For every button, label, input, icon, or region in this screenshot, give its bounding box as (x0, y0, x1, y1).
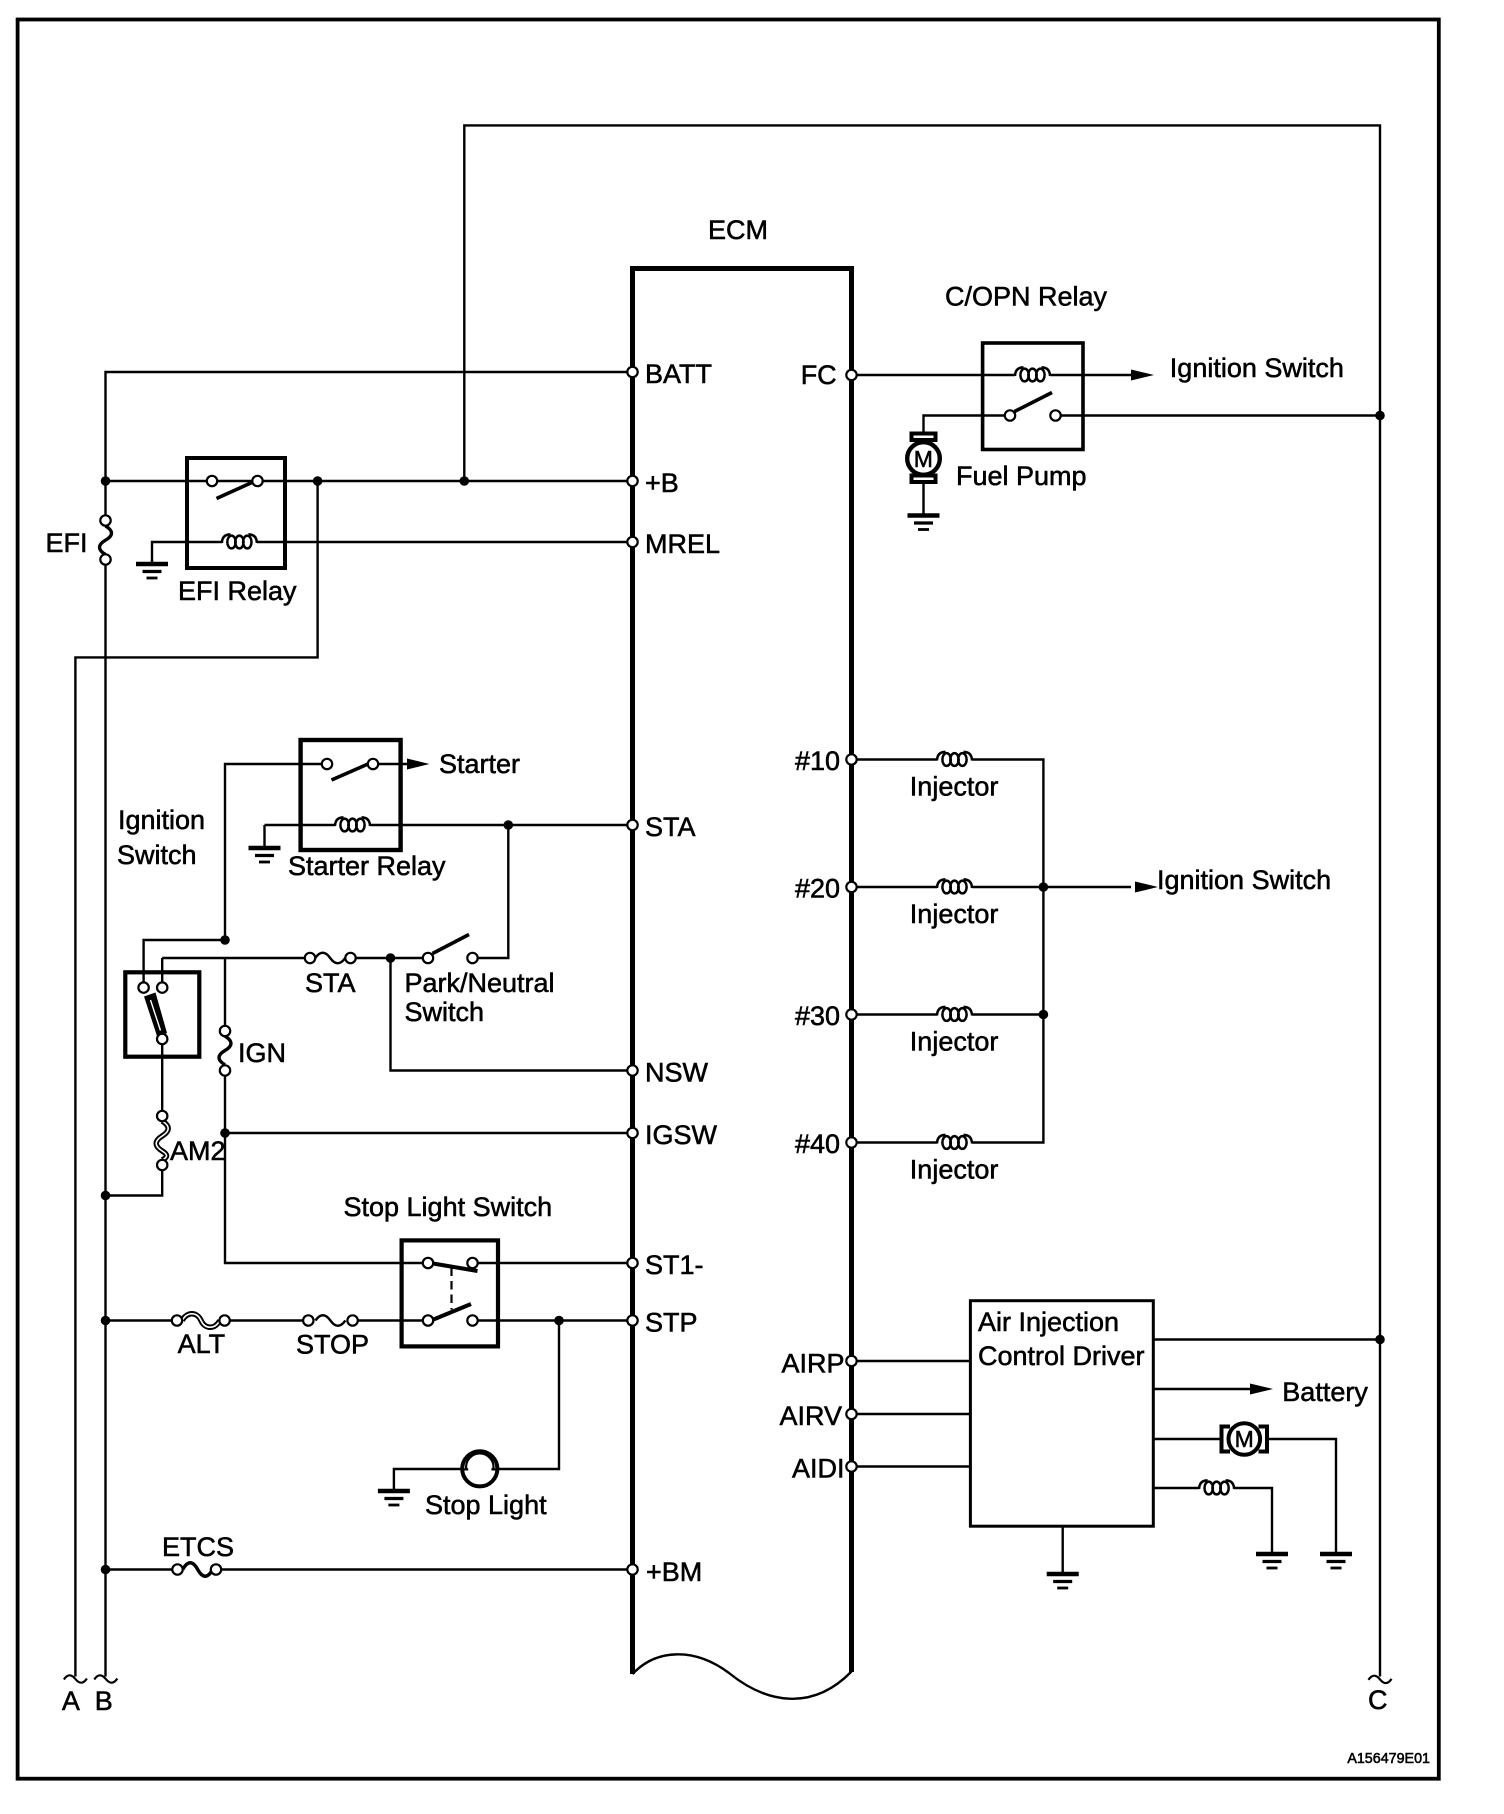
svg-text:STOP: STOP (296, 1330, 369, 1360)
svg-text:Ignition Switch: Ignition Switch (1170, 353, 1344, 383)
svg-text:Fuel Pump: Fuel Pump (956, 461, 1087, 491)
svg-text:+BM: +BM (646, 1557, 702, 1587)
svg-text:Starter: Starter (439, 749, 520, 779)
svg-text:A156479E01: A156479E01 (1347, 1751, 1430, 1767)
svg-text:#20: #20 (795, 874, 840, 904)
svg-text:Injector: Injector (910, 899, 999, 929)
svg-text:AIRV: AIRV (779, 1401, 842, 1431)
svg-text:Switch: Switch (405, 997, 485, 1027)
svg-text:Air Injection: Air Injection (978, 1307, 1119, 1337)
svg-text:AIRP: AIRP (781, 1349, 844, 1379)
svg-text:EFI: EFI (46, 528, 88, 558)
svg-text:Ignition Switch: Ignition Switch (1157, 865, 1331, 895)
svg-text:B: B (95, 1686, 113, 1716)
svg-text:Injector: Injector (910, 1027, 999, 1057)
svg-text:MREL: MREL (645, 529, 720, 559)
svg-text:BATT: BATT (645, 359, 712, 389)
svg-text:IGSW: IGSW (645, 1120, 718, 1150)
svg-text:M: M (914, 446, 933, 472)
svg-text:C/OPN Relay: C/OPN Relay (945, 282, 1108, 312)
svg-text:AM2: AM2 (170, 1136, 226, 1166)
svg-text:Injector: Injector (910, 1155, 999, 1185)
svg-text:Park/Neutral: Park/Neutral (405, 968, 555, 998)
svg-text:A: A (62, 1686, 80, 1716)
svg-text:#10: #10 (795, 746, 840, 776)
svg-text:Battery: Battery (1282, 1377, 1368, 1407)
svg-text:Stop Light Switch: Stop Light Switch (344, 1192, 553, 1222)
svg-text:Starter Relay: Starter Relay (288, 851, 446, 881)
svg-text:+B: +B (645, 468, 679, 498)
svg-text:Switch: Switch (117, 840, 197, 870)
svg-text:NSW: NSW (645, 1058, 709, 1088)
svg-text:IGN: IGN (238, 1038, 286, 1068)
svg-text:STA: STA (645, 812, 696, 842)
svg-text:ETCS: ETCS (162, 1532, 234, 1562)
svg-text:STA: STA (305, 968, 356, 998)
svg-text:Stop Light: Stop Light (425, 1490, 547, 1520)
svg-text:M: M (1235, 1426, 1254, 1452)
svg-text:EFI Relay: EFI Relay (178, 576, 297, 606)
svg-text:Ignition: Ignition (118, 805, 205, 835)
svg-text:FC: FC (801, 360, 837, 390)
svg-text:#40: #40 (795, 1129, 840, 1159)
svg-text:Injector: Injector (910, 772, 999, 802)
svg-text:AIDI: AIDI (792, 1454, 845, 1484)
svg-text:ALT: ALT (178, 1329, 226, 1359)
svg-text:ST1-: ST1- (645, 1250, 704, 1280)
svg-text:ECM: ECM (708, 215, 768, 245)
svg-text:STP: STP (645, 1308, 698, 1338)
svg-text:Control Driver: Control Driver (978, 1341, 1145, 1371)
svg-text:#30: #30 (795, 1001, 840, 1031)
svg-text:C: C (1368, 1685, 1388, 1715)
